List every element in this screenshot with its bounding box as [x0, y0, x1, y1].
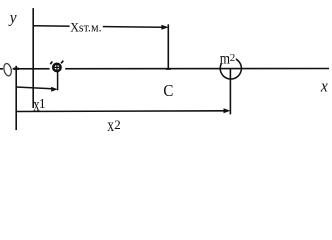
- svg-text:C: C: [163, 81, 173, 100]
- svg-text:y: y: [8, 9, 17, 26]
- svg-text:m: m: [220, 51, 230, 68]
- svg-text:2: 2: [114, 117, 121, 132]
- svg-text:1: 1: [39, 96, 46, 111]
- svg-text:Xsт.м.: Xsт.м.: [70, 21, 101, 35]
- svg-text:2: 2: [230, 53, 236, 64]
- svg-text:x: x: [107, 115, 114, 135]
- svg-text:x: x: [320, 77, 328, 96]
